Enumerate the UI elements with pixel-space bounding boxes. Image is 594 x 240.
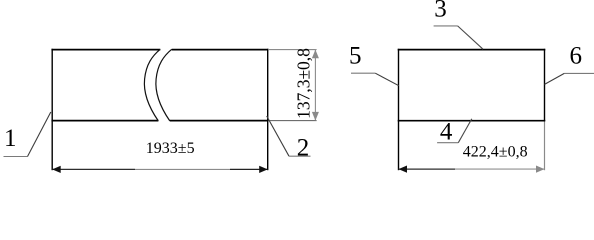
svg-text:2: 2	[297, 135, 310, 162]
svg-text:1933±5: 1933±5	[146, 140, 195, 157]
svg-text:3: 3	[434, 0, 447, 23]
svg-text:4: 4	[440, 119, 453, 146]
svg-text:137,3±0,8: 137,3±0,8	[293, 48, 313, 119]
svg-text:1: 1	[4, 125, 17, 152]
svg-text:6: 6	[569, 43, 582, 70]
svg-text:422,4±0,8: 422,4±0,8	[463, 144, 528, 161]
svg-text:5: 5	[349, 43, 362, 70]
